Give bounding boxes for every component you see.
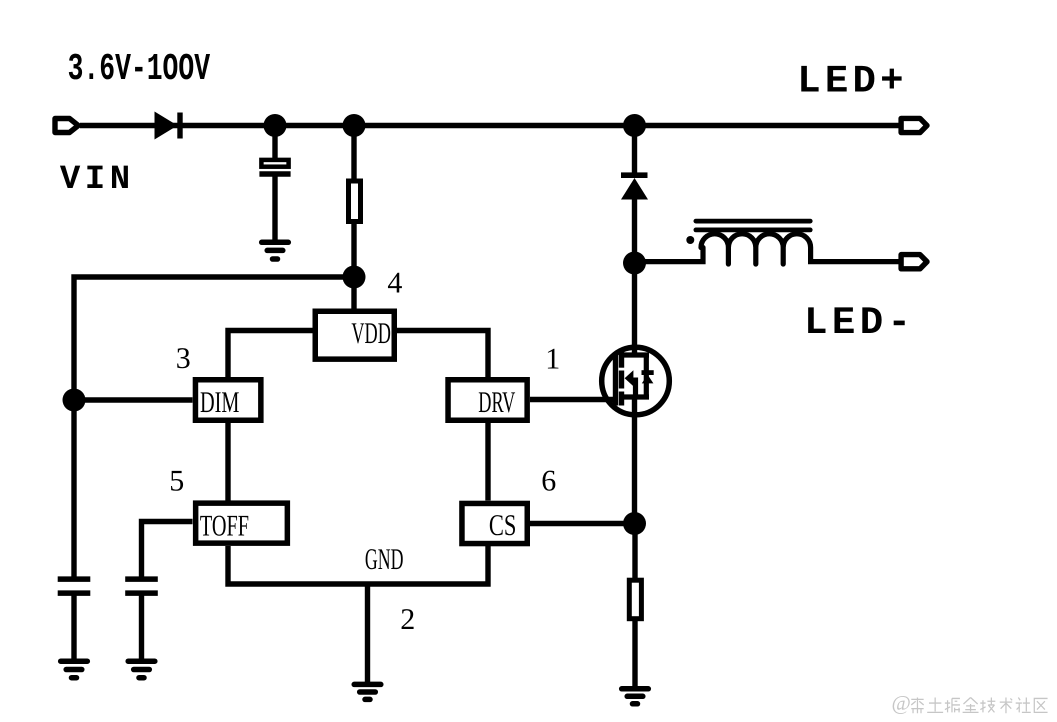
transistor Q1 MOSFET body — [602, 347, 670, 415]
掘 — [945, 698, 960, 712]
capacitor C4 — [125, 579, 158, 593]
node junction on top rail at R1 — [343, 114, 366, 137]
pin box DRV — [448, 380, 527, 421]
svg-text:3: 3 — [176, 342, 191, 375]
svg-text:TOFF: TOFF — [200, 510, 249, 543]
svg-text:5: 5 — [169, 464, 184, 497]
ground at GND pin — [354, 684, 381, 699]
node junction on top rail at C1 — [264, 114, 287, 137]
wire TOFF left and C4 top lead — [142, 522, 193, 577]
svg-text:GND: GND — [365, 543, 404, 576]
Q1 body diode bar — [642, 370, 654, 375]
resistor R2 sense — [629, 580, 641, 619]
svg-text:2: 2 — [400, 603, 415, 636]
svg-text:6: 6 — [541, 465, 556, 498]
ground at R2 — [622, 689, 649, 704]
pin box DIM — [195, 380, 260, 421]
Q1 body diode arrow — [642, 375, 654, 384]
svg-text:VIN: VIN — [60, 161, 135, 199]
术 — [1000, 698, 1012, 714]
watermark @稀土掘金技术社区 — [892, 691, 1048, 715]
ground at C4 — [128, 661, 155, 678]
wire top rail VIN to LED+ — [80, 123, 899, 128]
wire C4 bottom lead — [139, 596, 144, 661]
svg-text:CS: CS — [489, 509, 517, 542]
pin box TOFF — [196, 503, 288, 543]
ground at C5 — [61, 661, 88, 678]
Q1 gate bar — [613, 355, 618, 406]
svg-text:3.6V-1OOV: 3.6V-1OOV — [68, 48, 211, 91]
node junction 4 — [343, 266, 366, 289]
pin box CS — [462, 503, 527, 543]
Q1 body diode line — [644, 355, 649, 397]
土 — [927, 698, 943, 713]
wire DIM left — [74, 397, 193, 402]
terminal VIN — [55, 119, 78, 133]
社 — [1016, 698, 1031, 713]
技 — [980, 698, 995, 713]
wire C5 top lead — [71, 400, 76, 577]
Q1 body arrow — [625, 370, 634, 386]
svg-text:VDD: VDD — [351, 317, 390, 350]
node junction at inductor tap — [623, 252, 646, 275]
svg-text:LED+: LED+ — [797, 60, 907, 104]
wire D2 bottom lead — [632, 200, 637, 264]
capacitor C1 (input cap, polarized) — [259, 160, 290, 174]
diode D2 freewheeling — [621, 172, 648, 199]
svg-text:LED-: LED- — [804, 301, 915, 345]
svg-text:@: @ — [892, 691, 911, 715]
wire C5 bottom lead — [71, 596, 76, 661]
capacitor C5 — [58, 579, 91, 593]
terminal LED+ — [901, 118, 927, 132]
wire R1 bottom lead to VDD — [351, 224, 356, 312]
wire GND stub — [365, 584, 370, 683]
wire node4 horizontal and left drop — [74, 277, 354, 400]
wire DRV bottom to CS top — [485, 423, 490, 501]
wire R2 bottom lead — [632, 621, 637, 688]
inductor polarity dot — [686, 236, 694, 244]
node junction at DIM wire — [63, 389, 86, 412]
金 — [963, 698, 979, 713]
wire C1 bottom lead — [272, 177, 277, 242]
Q1 gate lead from DRV — [530, 397, 616, 402]
svg-text:4: 4 — [387, 266, 402, 299]
svg-text:1: 1 — [545, 342, 560, 375]
Q1 drain bar — [622, 352, 650, 357]
inductor L1 core bars — [696, 221, 810, 230]
wire VDD right to DRV top — [397, 331, 488, 378]
稀 — [911, 698, 923, 714]
pin box VDD — [315, 311, 394, 359]
resistor R1 — [349, 181, 361, 222]
diode D1 — [155, 112, 183, 140]
wire CS right to source node — [530, 521, 635, 526]
wire D2 top lead — [632, 126, 637, 173]
inductor L1 winding — [645, 234, 899, 264]
wire R1 top lead — [351, 126, 356, 181]
wire VDD left to DIM top — [228, 331, 313, 378]
区 — [1034, 698, 1047, 712]
wire Q1 source lead — [632, 396, 637, 524]
wire R2 top lead — [632, 524, 637, 582]
svg-text:DRV: DRV — [478, 386, 515, 419]
Q1 source bar — [622, 394, 650, 399]
terminal LED- — [901, 255, 927, 269]
node junction at CS / source — [623, 512, 646, 535]
wire bottom bus TOFF to CS — [228, 546, 488, 584]
node junction on top rail at D2 — [623, 114, 646, 137]
ground at C1 — [262, 242, 289, 259]
svg-text:DIM: DIM — [200, 386, 239, 419]
wire C1 top lead — [272, 126, 277, 159]
wire Q1 drain lead — [632, 263, 637, 357]
Q1 channel segments — [619, 351, 624, 406]
wire DIM bottom to TOFF top — [225, 423, 230, 501]
Q1 body contact stub — [633, 378, 638, 398]
